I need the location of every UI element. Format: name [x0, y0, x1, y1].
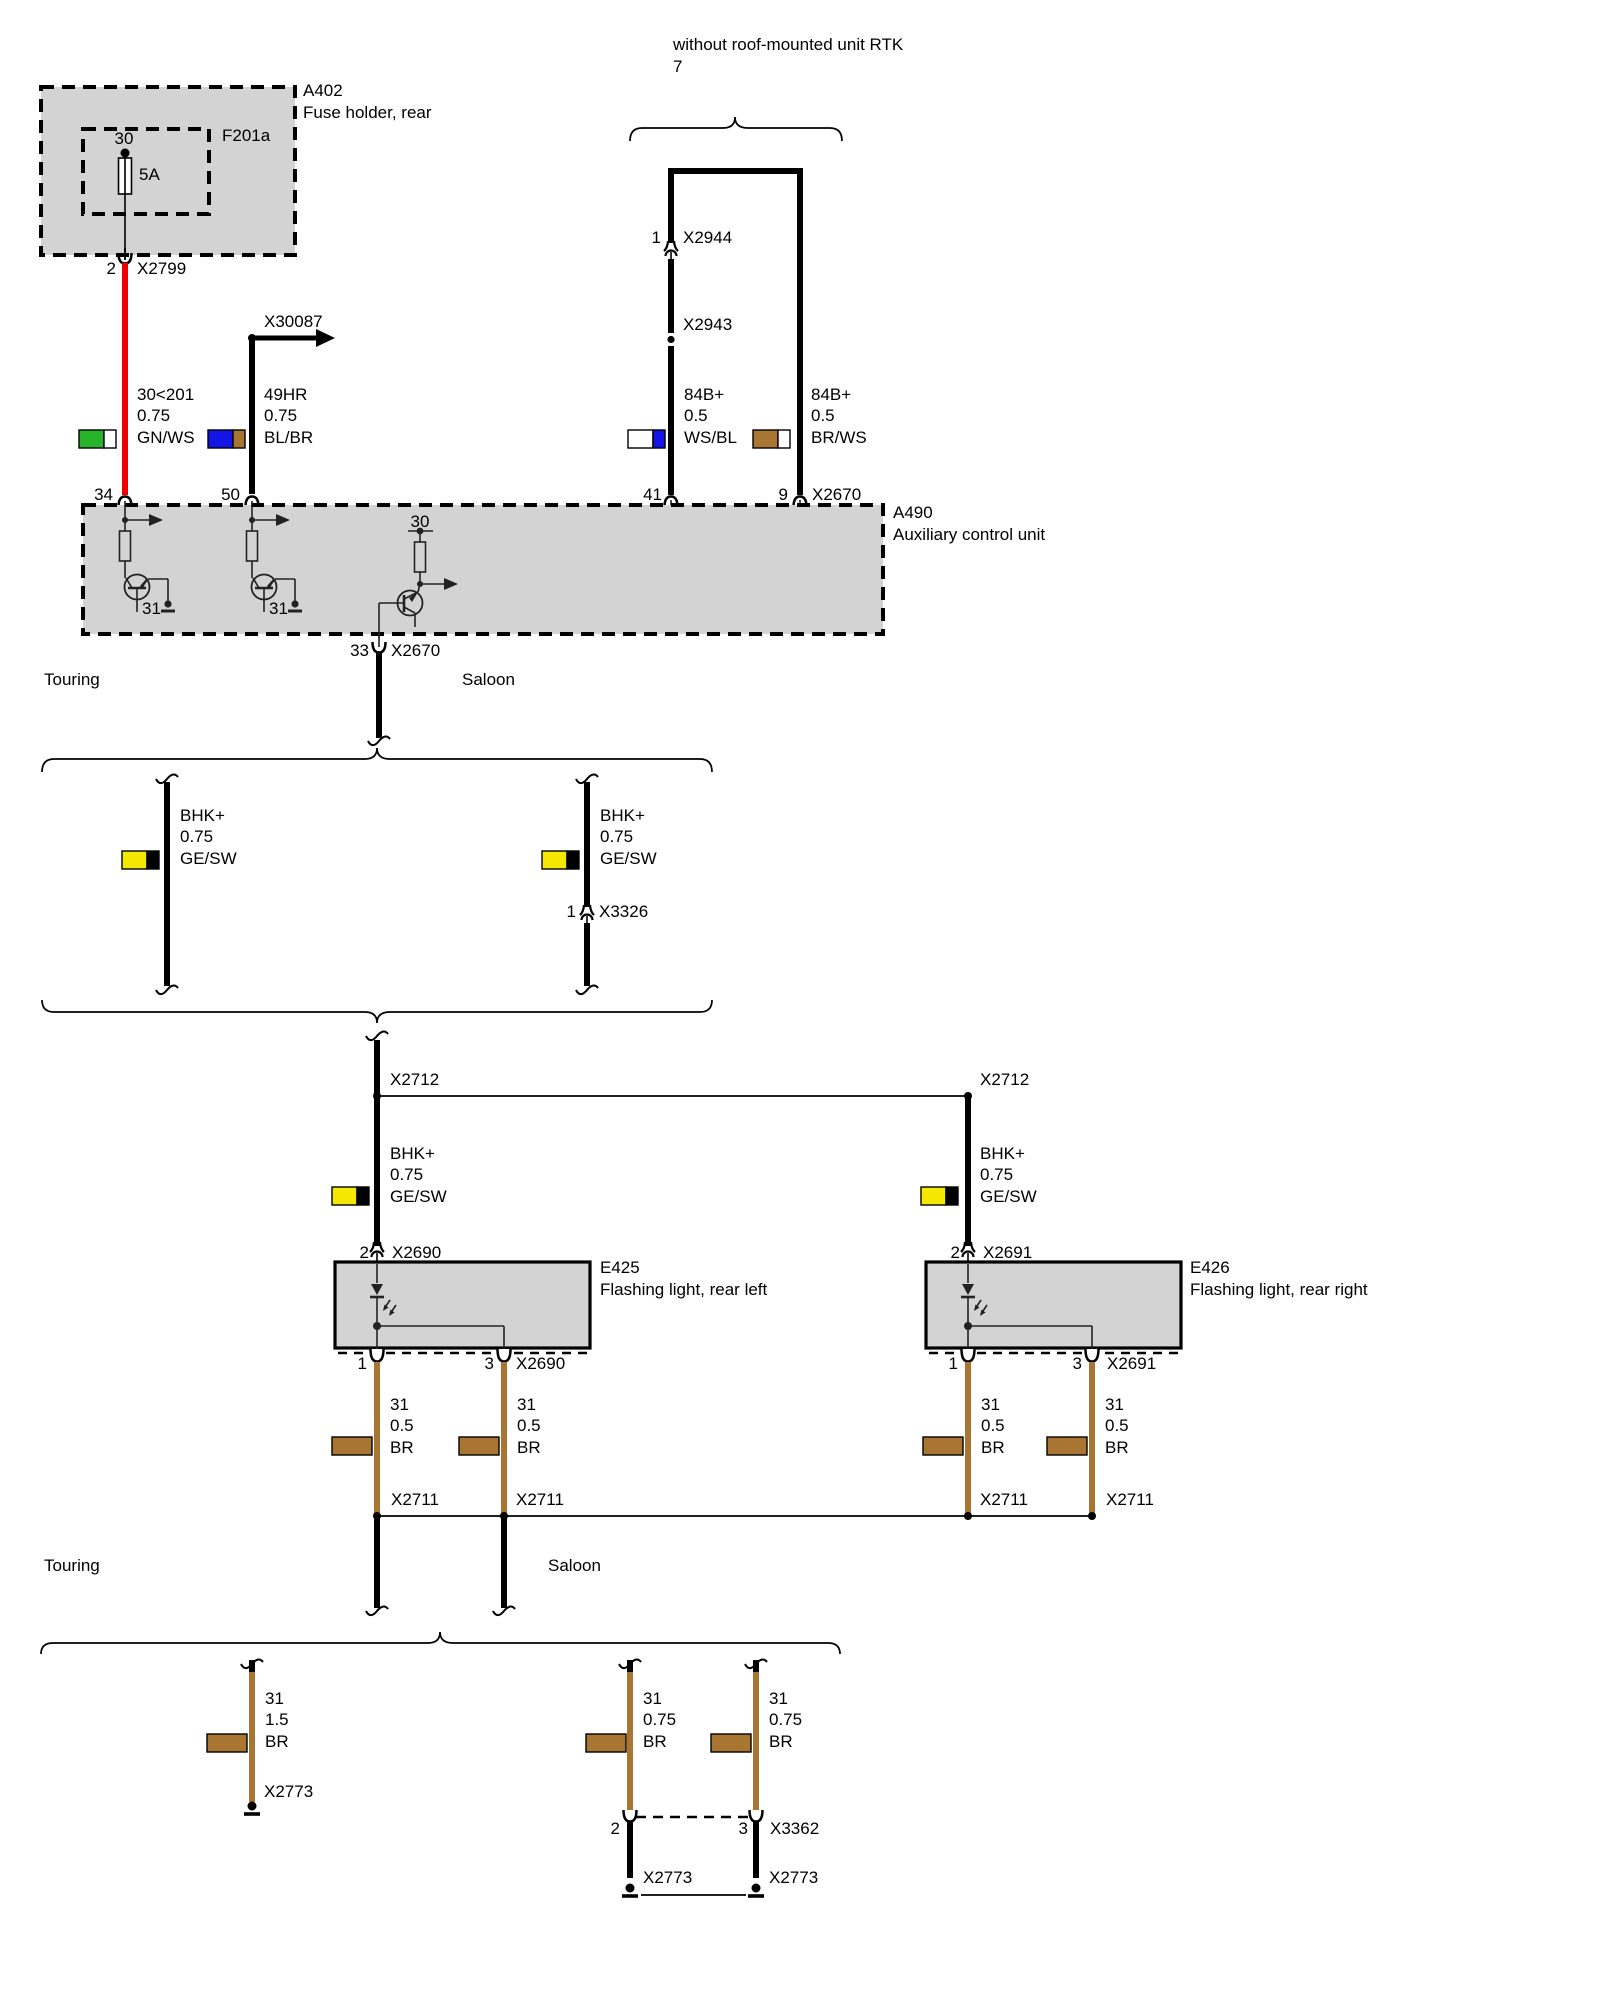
node X2711 a [373, 1490, 439, 1520]
wire 84B+ U-loop [671, 171, 800, 495]
wire label 49HR 0.75 BL/BR [264, 385, 313, 447]
brace lower join [42, 1000, 712, 1023]
svg-text:31: 31 [1105, 1395, 1124, 1414]
svg-text:X2690: X2690 [392, 1243, 441, 1262]
svg-text:30: 30 [115, 129, 134, 148]
svg-text:31: 31 [643, 1689, 662, 1708]
pin 50 [221, 485, 258, 507]
svg-text:1: 1 [358, 1354, 367, 1373]
svg-text:3: 3 [1073, 1354, 1082, 1373]
svg-text:2: 2 [611, 1819, 620, 1838]
svg-text:BR: BR [517, 1438, 541, 1457]
brace bottom split [41, 1632, 840, 1654]
flashing light E425 [335, 1258, 768, 1353]
svg-text:31: 31 [265, 1689, 284, 1708]
svg-text:X2690: X2690 [516, 1354, 565, 1373]
svg-text:X2670: X2670 [812, 485, 861, 504]
svg-text:X3362: X3362 [770, 1819, 819, 1838]
wire label 31 0.75 BR (Saloon left) [643, 1689, 676, 1751]
svg-text:Touring: Touring [44, 1556, 100, 1575]
A490 internal circuit pin 50 [247, 501, 303, 618]
svg-text:F201a: F201a [222, 126, 271, 145]
svg-text:X3326: X3326 [599, 902, 648, 921]
svg-text:BR: BR [981, 1438, 1005, 1457]
svg-text:X2711: X2711 [391, 1490, 439, 1509]
svg-text:BR: BR [769, 1732, 793, 1751]
svg-text:X2711: X2711 [516, 1490, 564, 1509]
svg-text:41: 41 [643, 485, 662, 504]
svg-text:BHK+: BHK+ [180, 806, 225, 825]
svg-text:0.5: 0.5 [1105, 1416, 1129, 1435]
svg-text:GE/SW: GE/SW [600, 849, 657, 868]
svg-text:Flashing light, rear right: Flashing light, rear right [1190, 1280, 1368, 1299]
svg-text:2: 2 [107, 259, 116, 278]
junction X30087 [248, 312, 323, 342]
wire label 31 0.5 BR (E426 pin3) [1105, 1395, 1129, 1457]
svg-text:1: 1 [652, 228, 661, 247]
wire label BHK+ 0.75 GE/SW (Saloon) [600, 806, 657, 868]
svg-text:30<201: 30<201 [137, 385, 194, 404]
svg-text:0.75: 0.75 [980, 1165, 1013, 1184]
wire label BHK+ 0.75 GE/SW (Touring) [180, 806, 237, 868]
svg-text:0.75: 0.75 [137, 406, 170, 425]
wire from pin 33 [368, 652, 390, 745]
ground in A490 circuit 1 [164, 600, 171, 607]
svg-text:0.5: 0.5 [811, 406, 835, 425]
connector X2690 pins 1 and 3 [358, 1346, 566, 1373]
ground in A490 circuit 2 [291, 600, 298, 607]
svg-text:Fuse holder, rear: Fuse holder, rear [303, 103, 432, 122]
arrow to X30087 [252, 329, 335, 347]
svg-text:BL/BR: BL/BR [264, 428, 313, 447]
svg-text:BHK+: BHK+ [600, 806, 645, 825]
wire 31 BR (E426 pin3) [1089, 1362, 1095, 1513]
svg-text:X2691: X2691 [1107, 1354, 1156, 1373]
colour code BR (E426 pin3) [1047, 1437, 1087, 1455]
pin 34 [94, 485, 131, 507]
svg-text:0.75: 0.75 [390, 1165, 423, 1184]
svg-text:Flashing light, rear left: Flashing light, rear left [600, 1280, 768, 1299]
wire label 31 0.75 BR (Saloon right) [769, 1689, 802, 1751]
svg-text:X2773: X2773 [643, 1868, 692, 1887]
svg-text:BHK+: BHK+ [980, 1144, 1025, 1163]
wire 84B+ below X2944 [668, 259, 674, 333]
colour code GN/WS [79, 430, 116, 448]
wire 31 BR (Saloon left) [619, 1660, 641, 1812]
svg-text:GN/WS: GN/WS [137, 428, 195, 447]
svg-text:34: 34 [94, 485, 113, 504]
wire 31 BR (Saloon right) [745, 1660, 767, 1812]
brace RTK option [630, 117, 842, 141]
wire label 31 0.5 BR (E426 pin1) [981, 1395, 1005, 1457]
wire BHK+ to E426 [965, 1096, 971, 1246]
ground X2773 (Saloon left) [622, 1868, 692, 1896]
svg-text:A402: A402 [303, 81, 343, 100]
colour code BR (Saloon right) [711, 1734, 751, 1752]
pin 41 [643, 485, 677, 514]
svg-text:84B+: 84B+ [684, 385, 724, 404]
node X2711 c [964, 1490, 1028, 1520]
svg-text:BR/WS: BR/WS [811, 428, 867, 447]
wire below X3362 pin 2 [627, 1822, 633, 1878]
svg-text:GE/SW: GE/SW [390, 1187, 447, 1206]
svg-text:31: 31 [390, 1395, 409, 1414]
svg-text:Auxiliary control unit: Auxiliary control unit [893, 525, 1045, 544]
svg-text:84B+: 84B+ [811, 385, 851, 404]
svg-text:GE/SW: GE/SW [180, 849, 237, 868]
connector X2690 pin 2 [360, 1242, 442, 1266]
colour code GE/SW (right) [921, 1187, 958, 1205]
transistor Q1 [125, 575, 150, 600]
svg-text:X2799: X2799 [137, 259, 186, 278]
wire down to X2712 [366, 1032, 388, 1096]
LED E425 [370, 1264, 504, 1348]
colour code BR/WS [753, 430, 790, 448]
connector X3362 pins 2 and 3 [611, 1810, 820, 1838]
colour code BR (Saloon left) [586, 1734, 626, 1752]
ground X2773 (Touring) [244, 1782, 313, 1814]
colour code GE/SW (left) [332, 1187, 369, 1205]
control unit A490 [83, 503, 1045, 634]
wire label BHK+ 0.75 GE/SW (left) [390, 1144, 447, 1206]
svg-text:X2943: X2943 [683, 315, 732, 334]
svg-text:X2711: X2711 [1106, 1490, 1154, 1509]
colour code GE/SW (Touring) [122, 851, 159, 869]
svg-text:X2691: X2691 [983, 1243, 1032, 1262]
wire below X3362 pin 3 [753, 1822, 759, 1878]
svg-text:WS/BL: WS/BL [684, 428, 737, 447]
wire label 30<201 0.75 GN/WS [137, 385, 195, 447]
net line X2712 [377, 1095, 968, 1097]
svg-text:BHK+: BHK+ [390, 1144, 435, 1163]
svg-text:0.5: 0.5 [981, 1416, 1005, 1435]
svg-text:49HR: 49HR [264, 385, 307, 404]
svg-text:3: 3 [739, 1819, 748, 1838]
svg-text:5A: 5A [139, 165, 160, 184]
svg-text:X2712: X2712 [390, 1070, 439, 1089]
earth link line [641, 1894, 746, 1896]
note without roof-mounted unit RTK 7 [672, 35, 904, 76]
wire below X2711 a [366, 1516, 388, 1615]
svg-text:31: 31 [769, 1689, 788, 1708]
svg-text:Saloon: Saloon [462, 670, 515, 689]
brace upper split [42, 748, 712, 772]
colour code BR (Touring) [207, 1734, 247, 1752]
net line X2711 [377, 1515, 1092, 1517]
svg-text:31: 31 [142, 599, 161, 618]
svg-text:without roof-mounted unit RTK: without roof-mounted unit RTK [672, 35, 904, 54]
svg-text:0.75: 0.75 [769, 1710, 802, 1729]
flashing light E426 [926, 1258, 1368, 1353]
svg-text:7: 7 [673, 57, 682, 76]
svg-text:X2711: X2711 [980, 1490, 1028, 1509]
fuse box F201a [83, 126, 271, 214]
LED E426 [961, 1264, 1092, 1348]
svg-text:31: 31 [269, 599, 288, 618]
node X2712 left [373, 1070, 439, 1100]
wire label 31 0.5 BR (E425 pin1) [390, 1395, 414, 1457]
connector X2691 pin 2 [951, 1242, 1033, 1266]
svg-text:Saloon: Saloon [548, 1556, 601, 1575]
svg-text:2: 2 [951, 1243, 960, 1262]
connector X2691 pins 1 and 3 [949, 1346, 1157, 1373]
wire BHK+ to E425 [374, 1096, 380, 1246]
wire label 84B+ 0.5 WS/BL [684, 385, 737, 447]
svg-text:1: 1 [949, 1354, 958, 1373]
wire label 31 1.5 BR (Touring) [265, 1689, 289, 1751]
svg-text:1.5: 1.5 [265, 1710, 289, 1729]
svg-text:X2712: X2712 [980, 1070, 1029, 1089]
node X2711 d [1088, 1490, 1154, 1520]
colour code WS/BL [628, 430, 665, 448]
connector X2944 pin 1 [652, 228, 733, 261]
svg-text:X2773: X2773 [769, 1868, 818, 1887]
svg-text:X2670: X2670 [391, 641, 440, 660]
transistor Q2 [252, 575, 277, 600]
transistor Q3 [398, 591, 423, 616]
svg-text:31: 31 [981, 1395, 1000, 1414]
svg-text:Touring: Touring [44, 670, 100, 689]
svg-text:0.5: 0.5 [684, 406, 708, 425]
svg-text:BR: BR [643, 1732, 667, 1751]
colour code GE/SW (Saloon) [542, 851, 579, 869]
svg-text:0.5: 0.5 [390, 1416, 414, 1435]
svg-text:A490: A490 [893, 503, 933, 522]
colour code BR (E425 pin3) [459, 1437, 499, 1455]
wire BHK+ GE/SW (Saloon) upper part [576, 775, 598, 907]
fuse F201a 5A [115, 129, 161, 252]
svg-text:BR: BR [390, 1438, 414, 1457]
wire 31 BR (E426 pin1) [965, 1362, 971, 1513]
svg-text:BR: BR [1105, 1438, 1129, 1457]
svg-text:GE/SW: GE/SW [980, 1187, 1037, 1206]
wire label BHK+ 0.75 GE/SW (right) [980, 1144, 1037, 1206]
svg-text:X30087: X30087 [264, 312, 323, 331]
wire 30<201 GN/WS (red) [122, 263, 128, 495]
wire below X2711 b [493, 1516, 515, 1615]
wire 49HR BL/BR [249, 338, 255, 494]
wire 31 BR (E425 pin1) [374, 1362, 380, 1513]
svg-text:50: 50 [221, 485, 240, 504]
node X2712 right [964, 1070, 1029, 1100]
svg-text:X2773: X2773 [264, 1782, 313, 1801]
pin 33 connector X2670 [350, 634, 440, 660]
colour code BR (E425 pin1) [332, 1437, 372, 1455]
svg-text:9: 9 [779, 485, 788, 504]
A490 internal circuit pin 34 [120, 501, 176, 618]
svg-text:2: 2 [360, 1243, 369, 1262]
wire 31 BR (Touring earth) [241, 1660, 263, 1802]
svg-text:31: 31 [517, 1395, 536, 1414]
svg-text:33: 33 [350, 641, 369, 660]
node X2711 b [500, 1490, 564, 1520]
svg-text:0.5: 0.5 [517, 1416, 541, 1435]
splice X2943 [667, 315, 732, 343]
A490 internal circuit 30-rail [379, 512, 458, 638]
wire BHK+ GE/SW (Touring) [156, 775, 178, 995]
svg-text:0.75: 0.75 [264, 406, 297, 425]
svg-text:X2944: X2944 [683, 228, 732, 247]
svg-text:BR: BR [265, 1732, 289, 1751]
colour code BL/BR [208, 430, 245, 448]
wire 31 BR (E425 pin3) [501, 1362, 507, 1513]
wire BHK+ GE/SW (Saloon) lower part [576, 923, 598, 994]
svg-text:0.75: 0.75 [600, 827, 633, 846]
colour code BR (E426 pin1) [923, 1437, 963, 1455]
wire label 84B+ 0.5 BR/WS [811, 385, 867, 447]
svg-text:E426: E426 [1190, 1258, 1230, 1277]
pin 9 connector X2670 [779, 485, 862, 514]
svg-text:0.75: 0.75 [180, 827, 213, 846]
wire label 31 0.5 BR (E425 pin3) [517, 1395, 541, 1457]
connector X3326 pin 1 [567, 902, 649, 925]
fuse holder box A402 [41, 81, 432, 255]
svg-text:3: 3 [485, 1354, 494, 1373]
connector X2799 pin 2 [107, 248, 187, 278]
svg-text:1: 1 [567, 902, 576, 921]
ground X2773 (Saloon right) [748, 1868, 818, 1896]
svg-text:0.75: 0.75 [643, 1710, 676, 1729]
svg-text:E425: E425 [600, 1258, 640, 1277]
